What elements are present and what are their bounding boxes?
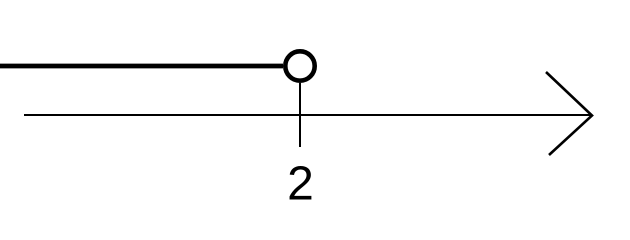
svg-text:2: 2 [287,158,314,211]
